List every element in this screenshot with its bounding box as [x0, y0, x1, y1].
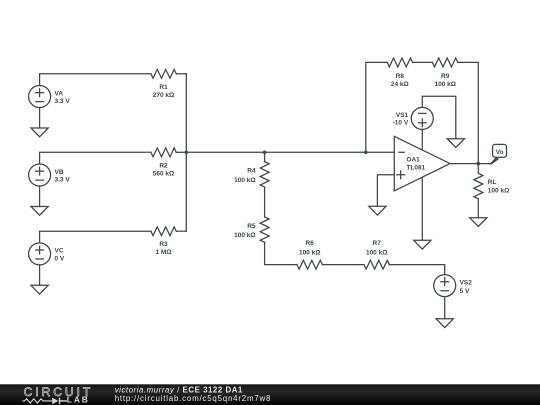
svg-text:0 V: 0 V [55, 255, 65, 262]
voltage source VS1 [411, 107, 433, 129]
svg-text:R3: R3 [159, 241, 168, 248]
svg-text:R2: R2 [159, 162, 168, 169]
voltage source VS2 [434, 275, 456, 297]
wire VA bottom to ground [39, 108, 41, 129]
footer bar [0, 384, 540, 405]
wire R1 to bus [176, 73, 186, 75]
resistor R4 [260, 162, 269, 187]
voltage source VA [29, 86, 51, 108]
svg-text:Vo: Vo [496, 149, 504, 156]
wire VB top to R2 [40, 152, 151, 164]
resistor R8 [387, 58, 412, 67]
resistor R1 [151, 69, 176, 78]
svg-text:VA: VA [55, 90, 64, 97]
svg-text:100 kΩ: 100 kΩ [234, 232, 255, 239]
ground right of VS1 [447, 139, 464, 148]
resistor R3 [151, 227, 176, 236]
voltage source VC [29, 243, 51, 265]
svg-text:VB: VB [55, 169, 64, 176]
svg-text:http://circuitlab.com/c5q5qn4r: http://circuitlab.com/c5q5qn4r2m7w8 [115, 394, 272, 403]
wire summing node to op-amp minus input [186, 151, 394, 153]
resistor R5 [260, 217, 269, 242]
svg-text:TL081: TL081 [406, 165, 425, 172]
svg-text:VS2: VS2 [460, 279, 473, 286]
wire R2 to bus [176, 151, 186, 153]
resistor R7 [364, 260, 389, 269]
svg-text:R8: R8 [396, 73, 405, 80]
svg-text:OA1: OA1 [406, 157, 420, 164]
node junction at R4 top [263, 151, 267, 155]
wire R4 top lead [264, 152, 266, 161]
resistor R2 [151, 148, 176, 157]
node junction at output [477, 162, 481, 166]
svg-text:1 MΩ: 1 MΩ [155, 249, 171, 256]
svg-text:100 kΩ: 100 kΩ [234, 177, 255, 184]
wire RL bottom to ground [477, 199, 479, 218]
ground below VB [31, 207, 48, 216]
svg-text:-10 V: -10 V [393, 120, 409, 127]
svg-text:R6: R6 [306, 240, 315, 247]
wire VS2 bottom to ground [444, 297, 446, 319]
svg-text:100 kΩ: 100 kΩ [299, 249, 320, 256]
svg-text:R5: R5 [247, 223, 256, 230]
wire op-amp output [450, 163, 490, 165]
wire VS1 top to ground [422, 96, 456, 138]
svg-text:100 kΩ: 100 kΩ [434, 81, 455, 88]
wire VC top to R3 [40, 231, 151, 243]
svg-text:R1: R1 [159, 84, 168, 91]
svg-text:R9: R9 [441, 73, 450, 80]
voltage source VB [29, 164, 51, 186]
svg-text:R7: R7 [373, 240, 382, 247]
wire VB bottom to ground [39, 186, 41, 207]
svg-text:LAB: LAB [67, 394, 90, 404]
wire VS1 bottom to op-amp V+ pin [421, 129, 423, 150]
ground below VA [31, 128, 48, 137]
ground below VC [31, 285, 48, 294]
wire R5 bottom to R6 [265, 242, 297, 264]
wire R3 to bus [176, 230, 186, 232]
svg-text:560 kΩ: 560 kΩ [153, 170, 174, 177]
svg-text:100 kΩ: 100 kΩ [488, 188, 509, 195]
svg-text:3.3 V: 3.3 V [55, 98, 71, 105]
resistor R6 [297, 260, 322, 269]
wire feedback left vertical [366, 62, 387, 152]
node junction at feedback tap [364, 151, 368, 155]
ground below op-amp [414, 240, 431, 249]
ground below RL [470, 218, 487, 227]
svg-text:3.3 V: 3.3 V [55, 176, 71, 183]
wire RL top lead [477, 164, 479, 174]
resistor RL [474, 173, 483, 198]
svg-text:24 kΩ: 24 kΩ [391, 81, 409, 88]
wire op-amp plus input to ground [377, 175, 394, 207]
logo resistor zigzag [23, 399, 52, 403]
svg-text:RL: RL [488, 179, 497, 186]
svg-text:5 V: 5 V [460, 288, 470, 295]
ground below VS2 [436, 319, 453, 328]
op-amp OA1 TL081 [394, 136, 450, 191]
wire R7 to VS2 [389, 265, 444, 275]
svg-text:VC: VC [55, 248, 64, 255]
svg-text:VS1: VS1 [396, 112, 409, 119]
svg-text:R4: R4 [247, 168, 256, 175]
node junction at bus and R2 [185, 151, 189, 155]
wire vertical bus [185, 74, 187, 231]
wire R6 to R7 [322, 264, 364, 266]
wire R9 to output node [458, 62, 479, 163]
svg-text:270 kΩ: 270 kΩ [153, 92, 174, 99]
svg-text:100 kΩ: 100 kΩ [366, 249, 387, 256]
resistor R9 [432, 58, 457, 67]
wire VC bottom to ground [39, 265, 41, 285]
wire VA top to R1 [40, 74, 151, 86]
flag pennant to Vo [489, 157, 499, 165]
wire R4 to R5 [264, 187, 266, 217]
node flag Vo [493, 144, 507, 157]
ground at op-amp plus input [369, 206, 386, 215]
wire R8 to R9 [413, 61, 433, 63]
logo diode symbol [52, 398, 58, 404]
wire op-amp V- pin to ground [421, 177, 423, 240]
